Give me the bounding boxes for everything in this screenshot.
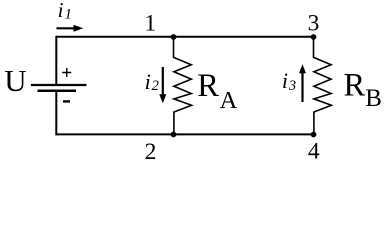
svg-text:i: i xyxy=(282,68,288,93)
node 4 junction dot xyxy=(311,132,317,138)
svg-text:A: A xyxy=(220,87,238,114)
svg-text:3: 3 xyxy=(288,78,296,94)
node 3 junction dot xyxy=(311,34,317,40)
svg-text:2: 2 xyxy=(145,139,157,165)
svg-text:3: 3 xyxy=(308,10,320,36)
node 1 junction dot xyxy=(171,34,177,40)
resistor RB xyxy=(314,37,332,134)
current arrow i1 xyxy=(57,27,76,29)
svg-text:U: U xyxy=(4,63,26,98)
current arrow i2 xyxy=(162,67,164,96)
svg-text:i: i xyxy=(145,69,151,94)
svg-text:1: 1 xyxy=(144,10,156,36)
battery minus mark xyxy=(63,100,70,102)
svg-text:i: i xyxy=(58,0,64,22)
svg-text:4: 4 xyxy=(308,139,320,165)
svg-text:B: B xyxy=(365,85,382,112)
wire bottom (node2 to node4) xyxy=(56,133,313,135)
battery plus mark xyxy=(62,68,71,77)
svg-text:R: R xyxy=(197,68,219,104)
node 2 junction dot xyxy=(171,132,177,138)
battery U negative plate xyxy=(38,90,77,93)
wire left lower (source - to bottom) xyxy=(55,92,57,136)
wire top (node1 to node3) xyxy=(56,36,313,38)
current arrow i3 xyxy=(301,73,303,102)
svg-text:2: 2 xyxy=(152,78,159,94)
battery U positive plate xyxy=(31,84,87,86)
resistor RA xyxy=(174,37,192,134)
wire left upper (source + to top) xyxy=(55,36,57,84)
svg-text:R: R xyxy=(344,67,366,103)
svg-text:1: 1 xyxy=(65,7,72,23)
